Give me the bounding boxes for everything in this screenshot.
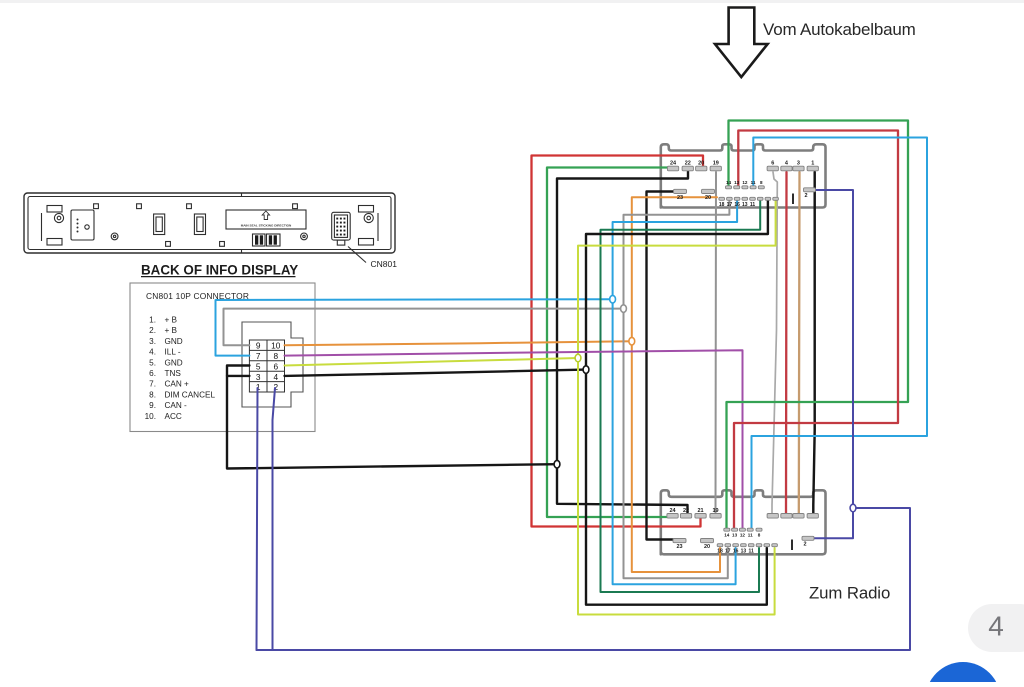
svg-text:16: 16 [734,202,740,208]
svg-text:20: 20 [705,195,711,201]
svg-text:16: 16 [733,548,739,554]
svg-text:20: 20 [698,161,704,167]
svg-text:20: 20 [704,544,710,550]
svg-text:14: 14 [726,180,732,185]
svg-text:23: 23 [676,544,682,550]
svg-text:3: 3 [797,161,800,167]
svg-text:13: 13 [732,533,738,538]
svg-text:8: 8 [273,351,278,361]
svg-text:11: 11 [750,202,756,208]
svg-text:4.: 4. [149,348,156,357]
svg-text:ILL -: ILL - [165,348,181,357]
svg-text:MAIN SEAL STICKING DIRECTION: MAIN SEAL STICKING DIRECTION [241,224,292,228]
svg-text:6.: 6. [149,369,156,378]
svg-text:2.: 2. [149,326,156,335]
svg-text:22: 22 [685,161,691,167]
svg-text:24: 24 [670,161,677,167]
svg-text:5.: 5. [149,358,156,367]
svg-text:TNS: TNS [165,369,182,378]
svg-text:11: 11 [751,180,756,185]
svg-text:21: 21 [697,508,703,514]
svg-text:12: 12 [742,180,748,185]
svg-text:2: 2 [804,193,807,199]
svg-text:6: 6 [273,361,278,371]
svg-text:CAN -: CAN - [165,401,188,410]
svg-text:10: 10 [271,341,281,351]
svg-text:17: 17 [725,548,731,554]
svg-text:3: 3 [256,372,261,382]
svg-text:19: 19 [713,161,719,167]
svg-text:9.: 9. [149,401,156,410]
svg-text:1: 1 [811,161,814,167]
svg-text:5: 5 [256,361,261,371]
svg-text:19: 19 [712,508,718,514]
svg-text:7.: 7. [149,380,156,389]
svg-text:22: 22 [683,508,689,514]
svg-text:18: 18 [717,548,723,554]
svg-text:23: 23 [677,195,683,201]
svg-text:11: 11 [749,548,755,554]
svg-text:8: 8 [760,180,763,185]
svg-text:1.: 1. [149,316,156,325]
svg-text:DIM CANCEL: DIM CANCEL [165,390,216,399]
svg-text:8.: 8. [149,390,156,399]
svg-text:9: 9 [256,341,261,351]
svg-text:13: 13 [741,548,747,554]
svg-text:ACC: ACC [165,412,182,421]
svg-text:4: 4 [988,611,1004,642]
svg-text:CN801: CN801 [371,259,398,269]
svg-text:Vom Autokabelbaum: Vom Autokabelbaum [763,20,916,39]
svg-text:18: 18 [719,202,725,208]
svg-text:24: 24 [669,508,676,514]
svg-text:8: 8 [758,533,761,538]
svg-text:+ B: + B [165,326,178,335]
svg-text:11: 11 [748,533,753,538]
svg-text:3.: 3. [149,337,156,346]
svg-text:Zum Radio: Zum Radio [809,584,890,603]
svg-text:BACK OF INFO DISPLAY: BACK OF INFO DISPLAY [141,263,298,278]
svg-text:12: 12 [740,533,746,538]
svg-text:10.: 10. [145,412,156,421]
svg-text:7: 7 [256,351,261,361]
svg-text:13: 13 [734,180,740,185]
svg-text:CAN +: CAN + [165,380,190,389]
svg-text:GND: GND [165,337,183,346]
svg-text:13: 13 [742,202,748,208]
svg-text:14: 14 [724,533,730,538]
svg-text:17: 17 [727,202,733,208]
svg-text:4: 4 [273,372,278,382]
svg-text:+ B: + B [165,316,178,325]
svg-text:2: 2 [803,542,806,548]
svg-text:6: 6 [771,161,774,167]
svg-text:GND: GND [165,358,183,367]
